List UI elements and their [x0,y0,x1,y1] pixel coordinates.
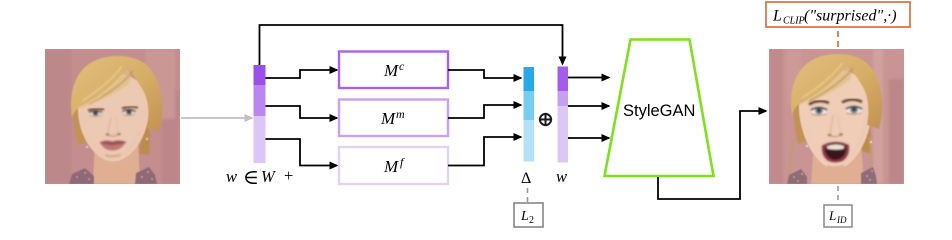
hair side flanks [74,89,90,145]
wire StyleGAN to output [658,111,766,199]
svg-text:c: c [399,59,405,73]
svg-text:w: w [226,167,237,186]
ears [806,145,808,147]
svg-text:W: W [261,167,276,186]
arrow w bar to StyleGAN row 3 [568,137,609,139]
input photo [43,47,182,186]
wire Mm to delta [448,105,521,118]
L2 loss box [514,203,543,227]
svg-text:2: 2 [529,215,534,226]
face [78,73,149,162]
svg-text:+: + [284,166,293,185]
svg-text:L: L [828,208,836,223]
output photo [767,47,906,186]
svg-text:("surprised",·): ("surprised",·) [804,8,897,25]
ID loss box [824,205,852,227]
mapper box M^m [339,100,448,137]
svg-text:StyleGAN: StyleGAN [623,102,695,120]
open mouth [822,142,849,168]
clip loss box [766,2,910,27]
loose strand wisps [790,139,793,184]
ears [86,146,88,148]
svg-text:M: M [383,157,399,176]
wire Mc to delta [448,70,521,78]
svg-text:M: M [383,61,399,80]
svg-text:CLIP: CLIP [783,16,805,27]
hair front [791,54,882,129]
oplus [539,113,552,126]
svg-text:ID: ID [836,215,847,225]
face [799,70,872,169]
latent bar w in W+ [254,65,266,163]
w bar [558,67,569,163]
svg-text:w: w [556,167,567,186]
nose [106,117,121,136]
neck [811,141,864,184]
dashed clip link [837,31,839,48]
garment [787,169,807,184]
svg-text:Δ: Δ [521,170,531,187]
wire bar1 to Mf [266,139,338,166]
svg-text:L: L [520,209,529,224]
wire bar1 to Mc [266,70,338,78]
dashed id link [837,186,839,204]
gray arrow input->w [181,117,252,119]
wire bar1 to Mm [266,106,338,118]
mapper box M^f [339,147,448,184]
mapper box M^c [339,52,448,89]
svg-text:L: L [772,8,782,25]
dashed link to L2 [527,188,529,202]
eyes [89,109,136,116]
bypass wire top [260,25,563,65]
wide eyes [811,105,862,115]
svg-text:m: m [396,107,405,121]
delta bar [524,67,535,162]
wire Mf to delta [448,137,521,166]
arrow w bar to StyleGAN row 2 [568,105,609,107]
arrow w bar to StyleGAN row 1 [568,77,609,79]
neck [93,137,140,184]
hair side flanks [794,87,810,144]
garment [69,168,94,184]
brows raised [809,101,829,104]
StyleGAN trapezoid [605,40,714,177]
brows [88,109,104,111]
label w in W+ text [226,166,293,186]
element-of symbol [246,172,257,184]
hair front [71,56,162,132]
svg-text:M: M [380,109,396,128]
lips [100,140,126,156]
nose [828,115,843,137]
